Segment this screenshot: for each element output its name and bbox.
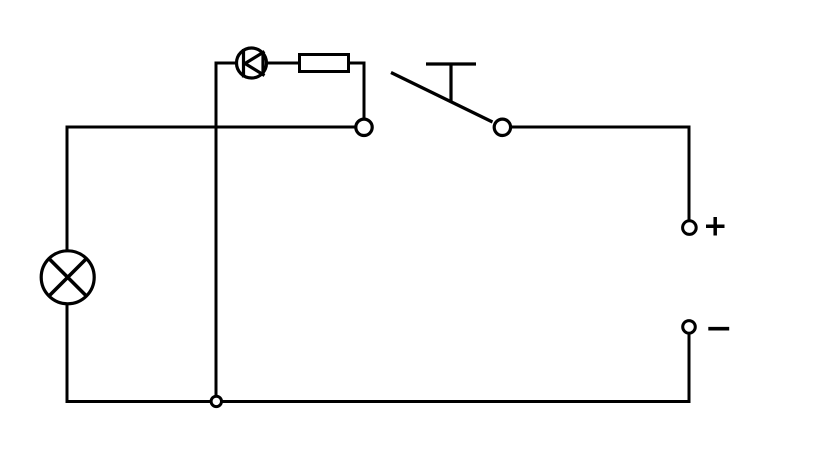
wire: left vertical upper (lamp top lead)	[66, 126, 69, 251]
wire: switch to right corner	[512, 126, 690, 129]
wire: minus terminal down	[688, 334, 691, 404]
wire: LED to resistor	[267, 62, 299, 65]
junction node	[211, 396, 221, 406]
wire: right vertical to plus terminal	[688, 126, 691, 221]
switch S1 right contact	[494, 119, 510, 135]
lamp E1	[41, 251, 94, 304]
wire: bottom horizontal rail	[66, 400, 690, 403]
wire: resistor to corner	[349, 62, 364, 65]
wire: corner down to switch left terminal	[363, 62, 366, 120]
wire: left vertical lower (lamp bottom lead)	[66, 305, 69, 403]
switch S1 button bar	[426, 62, 476, 65]
wire: middle vertical	[215, 63, 218, 396]
label +	[706, 217, 725, 236]
wire: top horizontal rail	[66, 126, 355, 129]
label -	[708, 327, 729, 331]
LED D1	[237, 48, 267, 78]
switch S1 lever	[391, 73, 493, 123]
switch S1 button stem	[449, 64, 452, 101]
terminal + circle	[683, 221, 697, 235]
resistor R1	[300, 55, 349, 72]
wire: LED branch left segment	[215, 62, 237, 65]
terminal - circle	[683, 321, 696, 334]
switch S1 left contact	[356, 119, 372, 135]
